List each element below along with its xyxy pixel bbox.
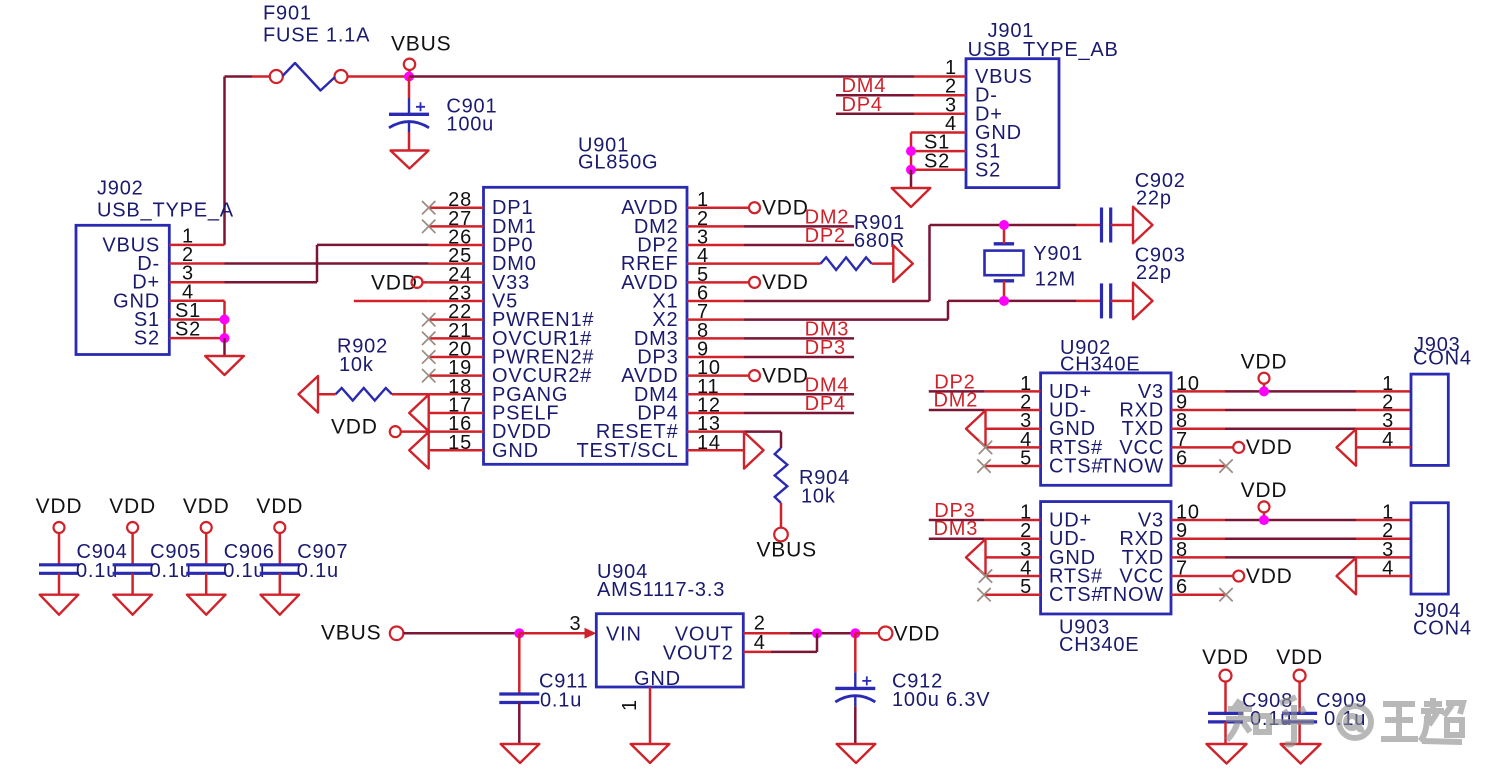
svg-text:CTS#: CTS#	[1049, 584, 1103, 606]
J901 pin stub	[914, 94, 966, 97]
resistor R901	[821, 257, 872, 270]
U901 left pin 15 stub	[429, 449, 484, 452]
wire VDD to C906	[205, 533, 208, 565]
U902 pin10 stub	[1171, 390, 1225, 393]
U903 pin6 TNOW stub	[1171, 593, 1226, 596]
capacitor C902	[1100, 208, 1103, 243]
svg-text:VDD: VDD	[1202, 646, 1249, 669]
svg-text:CON4: CON4	[1413, 618, 1472, 640]
U901 right pin 3 stub	[687, 244, 744, 247]
capacitor C903	[1100, 283, 1103, 318]
J902 pin stub	[169, 300, 224, 303]
wire DM4 net to J901 pin2	[836, 94, 914, 97]
svg-text:DP4: DP4	[842, 94, 883, 116]
U902 pin6 TNOW stub	[1171, 465, 1226, 468]
svg-text:CH340E: CH340E	[1059, 634, 1139, 656]
svg-text:VDD: VDD	[1246, 436, 1293, 459]
connector J903 body	[1411, 374, 1448, 465]
svg-text:VDD: VDD	[762, 364, 809, 387]
wire junction down to C911	[518, 633, 521, 694]
ground below C909	[1281, 744, 1321, 764]
J902 pin stub	[169, 337, 224, 340]
capacitor C908	[1208, 712, 1243, 715]
U901 left pin 16 stub	[429, 430, 484, 433]
U903 pin3 GND stub	[986, 556, 1041, 559]
J904 pin4 stub	[1356, 575, 1411, 578]
svg-text:VDD: VDD	[1276, 646, 1323, 669]
power port VDD at U901 pin10 AVDD	[749, 370, 760, 381]
ground below C905	[113, 595, 152, 615]
U901 left pin 19 stub	[429, 374, 484, 377]
ground at U901 pin15 GND	[409, 432, 429, 469]
U902 pin1 stub	[985, 390, 1041, 393]
svg-text:CON4: CON4	[1413, 348, 1472, 370]
svg-text:VBUS: VBUS	[321, 622, 381, 645]
svg-text:VBUS: VBUS	[391, 33, 451, 56]
connector J902 body	[76, 225, 169, 354]
junction C911 node	[514, 628, 524, 638]
wire junction down to C912	[854, 633, 857, 672]
wire C903 to ground	[1111, 300, 1133, 303]
svg-text:VDD: VDD	[762, 197, 809, 220]
J901 pin stub	[914, 169, 966, 172]
no-connect X on pin 20	[422, 350, 435, 363]
wire U903 RXD to J904 pin2	[1225, 537, 1356, 540]
U902 pin2 stub	[985, 409, 1041, 412]
no-connect X U902 pin4	[979, 441, 992, 454]
wire VOUT2	[771, 651, 817, 654]
wire DP2 net	[929, 390, 985, 393]
U903 pin4 RTS# stub	[986, 575, 1041, 578]
U901 left pin 28 stub	[429, 206, 484, 209]
no-connect X on pin 27	[422, 220, 435, 233]
svg-text:0.1u: 0.1u	[223, 560, 265, 582]
svg-text:F901: F901	[263, 3, 312, 25]
capacitor C904	[39, 563, 79, 566]
wire DM3 net	[929, 537, 985, 540]
svg-text:VIN: VIN	[606, 623, 642, 645]
wire DP2 net from pin3	[744, 244, 854, 247]
U901 right pin 7 stub	[687, 318, 744, 321]
J903 pin4 stub	[1356, 446, 1411, 449]
power port VDD at U901 pin1 AVDD	[749, 202, 760, 213]
wire C912 to ground	[854, 706, 857, 744]
svg-text:CTS#: CTS#	[1049, 456, 1103, 478]
ground below J902	[205, 356, 244, 375]
junction VBUS node	[404, 72, 414, 82]
U902 pin4 RTS# stub	[986, 446, 1041, 449]
wire fuse to VBUS node	[348, 75, 410, 78]
svg-text:GND: GND	[492, 440, 539, 462]
U901 left pin 26 stub	[429, 244, 484, 247]
U901 left pin 21 stub	[429, 337, 484, 340]
junction VDD U903 pin10	[1259, 515, 1269, 525]
ground below C912	[837, 744, 876, 763]
ground right of C902	[1133, 207, 1153, 244]
U901 right pin 5 stub	[687, 281, 749, 284]
wire C904 to ground	[58, 573, 61, 594]
wire DM3 net from pin8	[744, 337, 854, 340]
wire C911 to ground	[518, 703, 521, 745]
capacitor C907	[260, 563, 300, 566]
svg-text:DM2: DM2	[934, 390, 979, 412]
svg-text:1: 1	[619, 699, 641, 711]
svg-text:FUSE 1.1A: FUSE 1.1A	[263, 25, 370, 47]
wire VDD to C907	[279, 533, 282, 565]
wire RESET# pin13 to R904	[744, 430, 781, 433]
svg-text:22p: 22p	[1136, 188, 1172, 210]
resistor R902	[336, 388, 392, 401]
wire DM4 net from pin11	[744, 393, 854, 396]
junction X1 node	[999, 220, 1009, 230]
svg-text:22p: 22p	[1136, 262, 1172, 284]
svg-text:TEST/SCL: TEST/SCL	[577, 440, 679, 462]
J901 pin stub	[914, 150, 966, 153]
ground below C901	[391, 151, 429, 169]
wire V5 pin 23 stub	[354, 300, 429, 303]
capacitor C906	[186, 563, 226, 566]
U903 pin9 stub	[1171, 537, 1225, 540]
wire crystal top lead	[1003, 225, 1006, 244]
wire VDD to C905	[131, 533, 134, 565]
svg-text:DP2: DP2	[805, 225, 846, 247]
U902 pin8 stub	[1171, 427, 1225, 430]
U901 right pin 14 stub	[687, 449, 744, 452]
wire DM2 net	[929, 409, 985, 412]
IC U901 body	[484, 187, 688, 464]
svg-text:VDD: VDD	[109, 495, 156, 518]
capacitor C905	[113, 563, 153, 566]
U901 right pin 11 stub	[687, 393, 744, 396]
ground at J904 pin4	[1337, 558, 1357, 595]
U901 left pin 24 stub	[429, 281, 484, 284]
fuse F901 symbol	[270, 70, 283, 83]
svg-text:10k: 10k	[339, 354, 374, 376]
no-connect X U902 pin5	[977, 459, 990, 472]
wire DP4 net from pin12	[744, 412, 854, 415]
J901 pin stub	[911, 131, 966, 134]
capacitor C911	[499, 692, 539, 695]
no-connect X on pin 28	[422, 201, 435, 214]
wire U902 RXD to J903 pin2	[1225, 409, 1356, 412]
no-connect X on pin 22	[422, 313, 435, 326]
connector J901 body	[966, 59, 1059, 188]
IC U902 body	[1041, 373, 1171, 485]
U903 pin8 stub	[1171, 556, 1225, 559]
junction J901 S2	[906, 165, 916, 175]
wire J901 GND/S1/S2 vertical	[910, 133, 913, 170]
svg-text:0.1u: 0.1u	[297, 560, 339, 582]
U901 left pin 18 stub	[429, 393, 484, 396]
J901 pin stub	[914, 75, 966, 78]
svg-text:VDD: VDD	[36, 495, 83, 518]
svg-text:12M: 12M	[1035, 269, 1076, 291]
svg-text:VDD: VDD	[331, 416, 378, 439]
wire C906 to ground	[205, 573, 208, 594]
J902 pin stub	[169, 318, 224, 321]
svg-text:S2: S2	[975, 159, 1001, 181]
wire U903 TXD to J904 pin3	[1225, 556, 1356, 559]
U901 left pin 23 stub	[429, 300, 484, 303]
wire C907 to ground	[279, 573, 282, 594]
U904 VOUT2 stub	[743, 651, 771, 654]
ground below C907	[261, 595, 300, 615]
U901 right pin 8 stub	[687, 337, 744, 340]
svg-text:VDD: VDD	[183, 495, 230, 518]
svg-text:GL850G: GL850G	[578, 152, 658, 174]
ground below C911	[501, 744, 540, 763]
ground at U902 pin3	[966, 410, 986, 447]
capacitor C912 (polarized)	[854, 672, 856, 688]
svg-text:AMS1117-3.3: AMS1117-3.3	[597, 579, 725, 601]
wire C908 to ground	[1224, 722, 1227, 744]
junction J901 S1	[906, 146, 916, 156]
IC U904 body	[596, 614, 743, 687]
wire X2 net pin7 to crystal	[744, 318, 948, 321]
svg-text:100u 6.3V: 100u 6.3V	[892, 689, 990, 711]
J902 pin stub	[169, 262, 224, 265]
ground right of C903	[1133, 283, 1153, 320]
U901 right pin 12 stub	[687, 412, 744, 415]
wire DP3 net	[929, 519, 985, 522]
svg-text:10k: 10k	[801, 486, 836, 508]
U901 right pin 10 stub	[687, 374, 749, 377]
U901 left pin 25 stub	[429, 262, 484, 265]
U902 pin3 GND stub	[986, 427, 1041, 430]
wire C902 to ground	[1111, 224, 1133, 227]
IC U903 body	[1041, 502, 1171, 614]
wire VBUS to J901 pin1	[409, 75, 914, 78]
U901 right pin 1 stub	[687, 206, 749, 209]
svg-text:0.1u: 0.1u	[540, 690, 582, 712]
J902 pin stub	[169, 281, 224, 284]
wire VDD to C908	[1224, 682, 1227, 714]
wire D+ net J902 to U901 pin26	[225, 281, 318, 284]
wire VDD to C909	[1298, 682, 1301, 714]
svg-text:TNOW: TNOW	[1100, 456, 1164, 478]
wire J902 GND/S1/S2 vertical	[223, 301, 226, 338]
svg-text:Y901: Y901	[1033, 243, 1083, 265]
U901 right pin 9 stub	[687, 356, 744, 359]
wire D- net J902 to U901 pin25	[225, 262, 429, 265]
svg-text:GND: GND	[634, 668, 681, 690]
svg-text:J902: J902	[97, 178, 144, 200]
U904 GND pin 1 wire	[649, 687, 652, 744]
wire VDD to C904	[58, 533, 61, 565]
power port VDD circle at U904 output	[879, 627, 893, 641]
U903 pin5 CTS# stub	[984, 593, 1041, 596]
ground at U903 pin3	[966, 539, 986, 576]
junction C912 node	[850, 628, 860, 638]
no-connect X U903 pin6	[1219, 588, 1232, 601]
U903 pin1 stub	[985, 519, 1041, 522]
svg-text:USB_TYPE_A: USB_TYPE_A	[97, 200, 234, 222]
U903 pin7 VCC stub	[1171, 575, 1233, 578]
svg-text:100u: 100u	[446, 114, 494, 136]
wire C909 to ground	[1298, 722, 1301, 744]
U902 pin7 VCC stub	[1171, 446, 1233, 449]
U901 left pin 27 stub	[429, 225, 484, 228]
capacitor C901 (polarized)	[408, 98, 410, 114]
U901 right pin 2 stub	[687, 225, 744, 228]
connector J904 body	[1411, 503, 1448, 594]
J901 pin stub	[914, 113, 966, 116]
wire R902 to U901 pin18	[392, 393, 429, 396]
wire to fuse left pin	[252, 75, 270, 78]
ground at R902 left	[299, 376, 319, 413]
svg-text:DM3: DM3	[934, 518, 979, 540]
wire VOUT to VDD	[790, 632, 855, 635]
wire ground to R902	[318, 393, 336, 396]
no-connect X on pin 19	[422, 369, 435, 382]
wire crystal bottom lead	[1003, 281, 1006, 301]
svg-text:VDD: VDD	[894, 622, 941, 645]
U904 VOUT stub	[743, 632, 790, 635]
ground below C904	[40, 595, 79, 615]
crystal Y901	[994, 242, 1014, 245]
svg-text:DP4: DP4	[805, 393, 846, 415]
ground below C906	[187, 595, 226, 615]
wire J902 pin1 up to fuse	[223, 77, 226, 245]
junction VOUT2 node	[812, 628, 822, 638]
wire C901 to ground	[408, 132, 411, 151]
resistor R904	[775, 448, 788, 503]
wire DP4 net to J901 pin3	[836, 113, 914, 116]
no-connect X U902 pin6	[1219, 459, 1232, 472]
svg-text:2: 2	[754, 612, 766, 634]
svg-text:VDD: VDD	[1241, 350, 1288, 373]
U903 pin10 stub	[1171, 519, 1225, 522]
wire DP3 net from pin9	[744, 356, 854, 359]
U904 VIN input arrowhead	[585, 628, 597, 639]
wire U902 V3 to J903 pin1	[1225, 390, 1356, 393]
svg-text:0.1u: 0.1u	[150, 560, 192, 582]
svg-text:DP3: DP3	[805, 337, 846, 359]
U901 right pin 6 stub	[687, 300, 744, 303]
ground at U901 pin14 TEST/SCL	[744, 432, 764, 469]
svg-text:VDD: VDD	[256, 495, 303, 518]
wire R904 to VBUS port	[780, 503, 783, 528]
svg-text:TNOW: TNOW	[1100, 584, 1164, 606]
U901 right pin 13 stub	[687, 430, 744, 433]
ground at R901 right	[893, 245, 913, 282]
ground at U901 pin17 PSELF	[409, 395, 429, 432]
svg-text:VDD: VDD	[1246, 565, 1293, 588]
wire U902 TXD to J903 pin3	[1225, 427, 1356, 430]
wire VBUS to VIN	[403, 632, 519, 635]
junction S1	[220, 315, 230, 325]
svg-text:VDD: VDD	[762, 271, 809, 294]
svg-text:VBUS: VBUS	[757, 539, 817, 562]
svg-text:3: 3	[570, 613, 582, 635]
no-connect X U903 pin5	[977, 588, 990, 601]
U903 pin2 stub	[985, 537, 1041, 540]
junction S2	[220, 333, 230, 343]
wire U903 V3 to J904 pin1	[1225, 519, 1356, 522]
ground below C908	[1207, 744, 1247, 764]
junction X2 node	[999, 296, 1009, 306]
no-connect X U903 pin4	[979, 569, 992, 582]
svg-text:VDD: VDD	[1241, 479, 1288, 502]
junction VDD U902 pin10	[1259, 386, 1269, 396]
watermark (decorative)	[1226, 697, 1463, 745]
ground at J903 pin4	[1337, 429, 1357, 466]
power port VDD at U903 pin7	[1233, 571, 1244, 582]
U902 pin5 CTS# stub	[984, 465, 1041, 468]
U901 left pin 20 stub	[429, 356, 484, 359]
U901 left pin 17 stub	[429, 412, 484, 415]
wire X1 net pin6 to crystal	[744, 300, 930, 303]
power port VBUS circle below R904	[774, 528, 788, 542]
power port VBUS circle at U904	[390, 627, 404, 641]
power port VDD at U901 pin5 AVDD	[749, 277, 760, 288]
ground below U904	[631, 744, 670, 763]
J902 pin stub	[169, 244, 224, 247]
no-connect X on pin 21	[422, 332, 435, 345]
wire R901 to ground	[872, 262, 894, 265]
svg-text:S2: S2	[134, 328, 160, 350]
wire VBUS node down to C901	[408, 77, 411, 99]
wire C905 to ground	[131, 573, 134, 594]
U902 pin9 stub	[1171, 409, 1225, 412]
power port VBUS circle	[404, 59, 415, 70]
power port VDD at U902 pin7	[1233, 442, 1244, 453]
wire DM2 net from pin2	[744, 225, 854, 228]
svg-text:0.1u: 0.1u	[76, 560, 118, 582]
wire RREF pin4 to R901	[744, 262, 821, 265]
svg-text:VOUT2: VOUT2	[663, 642, 734, 664]
U901 right pin 4 stub	[687, 262, 744, 265]
capacitor C909	[1282, 712, 1317, 715]
U901 left pin 22 stub	[429, 318, 484, 321]
ground below J901	[892, 188, 931, 207]
